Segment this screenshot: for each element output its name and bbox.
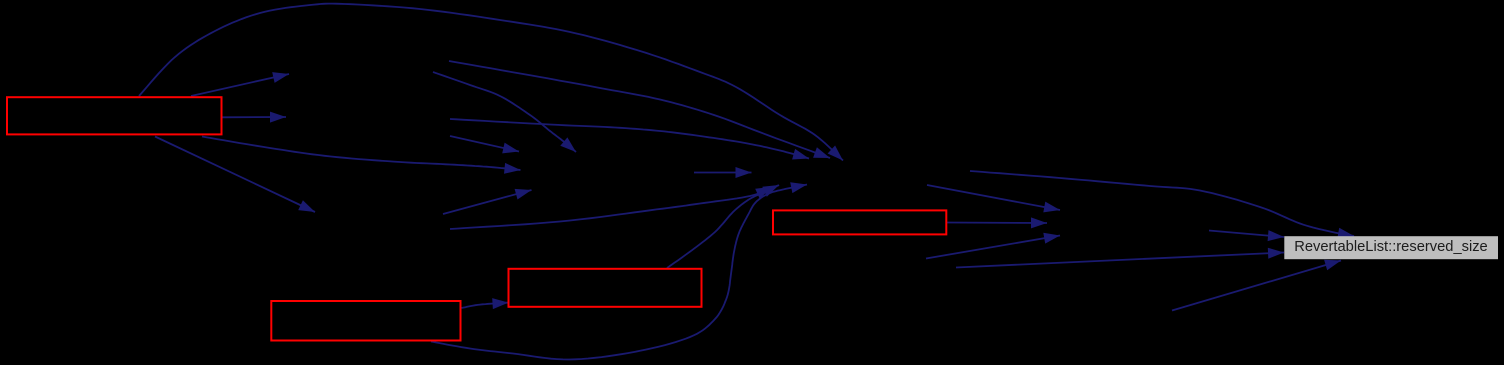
edge: hidden -> E.left-bottom: [956, 253, 1284, 268]
edge: J1.right -> hidden G2: [450, 187, 772, 229]
edge: I.right -> hidden G1: [694, 172, 752, 174]
node B (red, label hidden): [271, 301, 460, 341]
edge: A.bottom -> hidden J1: [155, 137, 315, 213]
edge: G.right -> hidden L1: [927, 185, 1060, 210]
edge: L1.right -> E.left-top: [1209, 231, 1284, 238]
edge: B.bottom -> hidden G3 (swoop): [431, 185, 807, 360]
edge: A.right -> hidden H2: [223, 116, 287, 118]
edge: H1.right -> node2: [449, 61, 830, 158]
edge: D.right -> hidden L1: [947, 222, 1047, 225]
svg-text:RevertableList::reserved_size: RevertableList::reserved_size: [1294, 239, 1487, 255]
edge: A.top -> hidden H1: [191, 74, 289, 96]
node C (red, label hidden): [509, 269, 702, 307]
edge: B.right -> C.left: [462, 303, 509, 308]
edge: A.bottom -> hidden I2: [202, 137, 521, 171]
edge: H2.right -> node3: [450, 119, 809, 159]
edge: H2.right -> hidden I1: [450, 136, 519, 152]
node A (red, label hidden): [7, 97, 222, 134]
edge: hidden -> L1: [926, 236, 1060, 259]
edge: hidden M -> E.bottom: [1172, 261, 1341, 311]
edge: C.top -> hidden G2: [667, 185, 779, 268]
edge: G.right -> E.top (swoop): [970, 171, 1354, 236]
edge: A.top -> node1 (big arc): [139, 4, 843, 161]
edge: H1.bottom -> hidden I4: [433, 72, 576, 152]
node E: RevertableList::reserved_size (current): [1284, 236, 1498, 259]
edge: J1.right -> hidden I3: [443, 190, 532, 214]
node D (red, label hidden): [773, 210, 946, 234]
